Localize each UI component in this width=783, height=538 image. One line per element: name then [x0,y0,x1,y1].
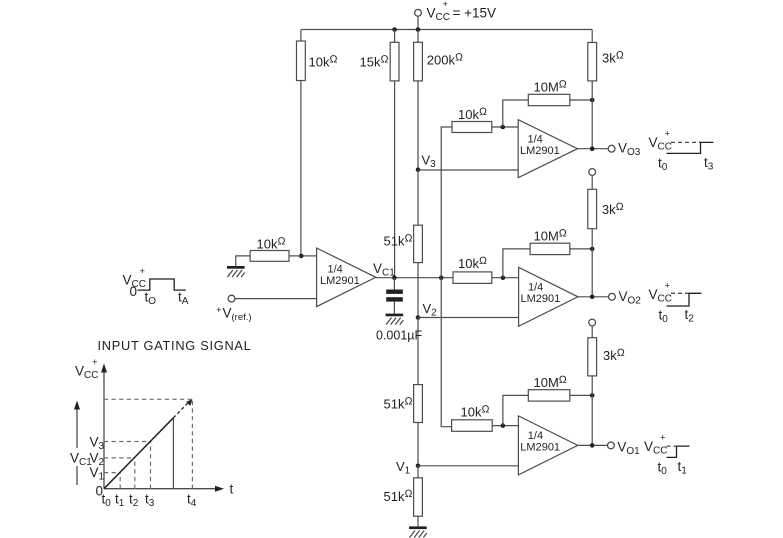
graph: x axis [96,482,234,499]
junction on rail at VCC stem [416,27,421,32]
wire: U4 + input [301,255,316,257]
svg-text:INPUT GATING SIGNAL: INPUT GATING SIGNAL [98,338,252,353]
wire: U3 output [578,148,609,150]
svg-text:LM2901: LM2901 [320,275,360,287]
node V1 [396,459,420,477]
output waveform VO1 annotation [644,433,690,478]
node V3 [416,153,436,173]
resistor R14 10k (U1 stage input) [452,404,519,432]
wire: U1 output [578,444,608,446]
resistor R4 51k (V3-V2) [384,170,423,318]
graph: dashed time t3 [150,442,152,489]
wire: V2 to comparator U2 inverting input [418,317,519,319]
node: U3 + input junction [501,125,506,130]
node: junction 10k column / U4 + input [299,254,304,259]
graph: time labels [102,492,197,510]
title INPUT GATING SIGNAL [98,338,252,353]
op-amp U1 1/4 LM2901 [518,416,577,475]
wire: U2 output [578,296,609,298]
graph: dashed time t1 [119,473,121,489]
node: U1 + input junction [501,423,506,428]
resistor R10 3k (U3 pull-up) [588,30,624,149]
graph: VC1 axis arrow [66,401,92,486]
node: U1 output junction [590,443,595,448]
terminal VCC+ [415,0,496,30]
svg-text:1/4: 1/4 [528,430,543,442]
op-amp U3 1/4 LM2901 [518,120,577,178]
resistor R1 10k (top left) [297,30,338,256]
node: R15/R16 junction [590,393,595,398]
graph: y axis [75,357,107,489]
output waveform VO2 annotation [649,281,702,326]
node: R12/R13 junction [590,247,595,252]
resistor R3 200k [414,30,463,170]
output waveform VO3 annotation [649,129,714,174]
wire: V1 to comparator U1 inverting input [418,465,519,467]
graph: dashed time t2 [134,458,136,489]
node: U2 output junction [590,295,595,300]
graph: level label V2 [90,451,105,469]
svg-text:0.001µF: 0.001µF [376,329,422,343]
svg-text:1/4: 1/4 [528,282,543,294]
wire: U2 feedback [503,249,530,278]
terminal VO1 [608,440,641,458]
wire: VC1 distribution column [441,127,452,427]
resistor R5 51k (V2-V1) [384,318,423,466]
resistor R9 10M (U3 feedback) [528,79,592,106]
graph: level label V3 [90,435,105,453]
terminal (VCC for R16) [589,319,596,326]
terminal VO3 [608,141,641,159]
resistor R16 3k (U1 pull-up) [588,326,625,446]
ground (below R6) [409,526,427,537]
ground (below C1) [386,314,404,325]
resistor R2 15k [360,30,400,278]
resistor R8 10k (U3 stage input) [452,106,518,133]
graph: ramp trace [104,399,192,488]
graph: dashed level V1 [104,472,120,474]
node: U2 + input junction [501,275,506,280]
capacitor C1 0.001uF [376,278,422,343]
op-amp U4 1/4 LM2901 (ramp generator) [317,248,376,307]
graph: level label V1 [90,465,105,483]
wire: U1 feedback [503,395,528,425]
terminal (VCC for R13) [589,169,596,176]
resistor R11 10k (U2 stage input) [453,255,519,283]
graph: dashed time t4 [191,399,193,488]
resistor R12 10M (U2 feedback) [530,228,592,255]
wire: +VCC top rail [301,29,592,31]
terminal +V(ref.) [216,295,317,323]
graph: dashed level top [104,398,192,400]
node: U3 output junction [590,146,595,151]
resistor R13 3k (U2 pull-up) [588,175,624,296]
graph: dashed level V3 [104,441,151,443]
svg-text:1/4: 1/4 [328,264,343,276]
graph: dashed level V2 [104,457,135,459]
ground (at R7) [227,266,245,277]
svg-text:+: + [216,305,222,316]
wire: V3 to comparator U3 inverting input [418,169,518,171]
op-amp U2 1/4 LM2901 [519,267,578,326]
svg-text:t: t [230,482,234,497]
svg-text:0: 0 [130,284,138,299]
resistor R15 10M (U1 feedback) [528,374,592,401]
svg-text:1/4: 1/4 [528,134,543,146]
svg-text:LM2901: LM2901 [520,145,560,157]
node V2 [416,301,437,320]
resistor R6 51k (V1-GND) [384,466,423,527]
node VC1 (wire from U4 output to U2 10k) [373,261,453,280]
junction on rail at 15k [392,27,397,32]
input gate pulse waveform annotation [123,266,189,307]
svg-text:LM2901: LM2901 [521,293,561,305]
wire: U3 feedback [503,100,529,127]
resistor R7 10k (U4 input to ground) [250,236,301,262]
terminal VO2 [609,289,642,307]
node: R9/R10 junction [590,98,595,103]
wire: R7 to ground [236,256,250,266]
svg-text:LM2901: LM2901 [520,442,560,454]
